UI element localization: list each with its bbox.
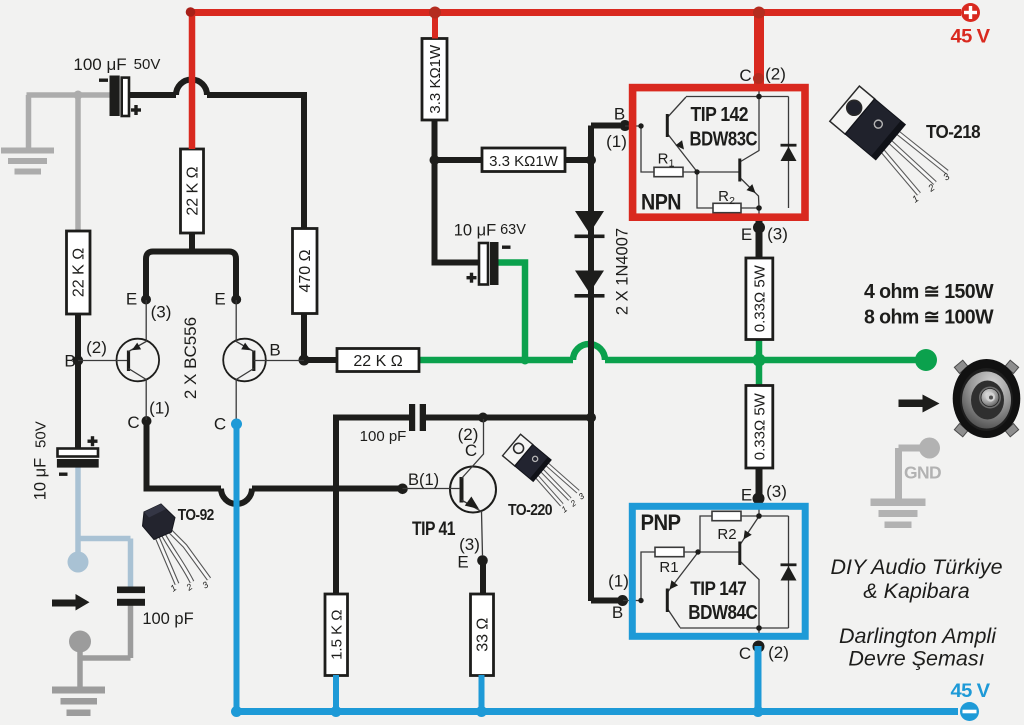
- svg-text:2 X BC556: 2 X BC556: [181, 317, 200, 399]
- svg-text:3.3 KΩ1W: 3.3 KΩ1W: [489, 153, 559, 170]
- svg-text:63V: 63V: [500, 222, 526, 238]
- svg-text:22 K Ω: 22 K Ω: [353, 353, 402, 370]
- svg-text:E: E: [741, 486, 752, 505]
- svg-text:(1): (1): [149, 399, 170, 418]
- svg-text:22 K Ω: 22 K Ω: [185, 166, 202, 215]
- svg-text:(3): (3): [767, 225, 788, 244]
- svg-text:TIP 41: TIP 41: [412, 519, 456, 540]
- svg-text:(3): (3): [459, 535, 480, 554]
- svg-text:B: B: [64, 352, 75, 371]
- svg-text:(2): (2): [765, 65, 786, 84]
- svg-text:470 Ω: 470 Ω: [297, 249, 314, 292]
- svg-text:E: E: [741, 225, 752, 244]
- svg-text:2 X 1N4007: 2 X 1N4007: [614, 228, 632, 315]
- svg-text:TIP 147: TIP 147: [690, 578, 746, 600]
- svg-text:(3): (3): [766, 482, 787, 501]
- svg-text:C: C: [739, 644, 751, 663]
- svg-text:C: C: [739, 66, 751, 85]
- svg-text:& Kapibara: & Kapibara: [863, 579, 969, 603]
- svg-text:33 Ω: 33 Ω: [475, 618, 492, 652]
- svg-text:4 ohm ≅ 150W: 4 ohm ≅ 150W: [864, 281, 994, 303]
- svg-text:100 pF: 100 pF: [142, 610, 193, 628]
- svg-text:BDW83C: BDW83C: [690, 128, 758, 151]
- svg-text:R2: R2: [717, 526, 736, 543]
- svg-text:R1: R1: [659, 559, 678, 576]
- svg-text:C: C: [127, 413, 139, 432]
- svg-text:TO-218: TO-218: [926, 122, 981, 142]
- svg-text:Darlington Ampli: Darlington Ampli: [839, 624, 997, 648]
- svg-text:TO-92: TO-92: [178, 507, 214, 524]
- svg-text:100 pF: 100 pF: [360, 428, 407, 445]
- svg-text:1.5 K Ω: 1.5 K Ω: [329, 609, 346, 659]
- svg-text:2: 2: [729, 195, 735, 207]
- svg-text:Devre Şeması: Devre Şeması: [848, 647, 984, 671]
- svg-text:E: E: [126, 290, 137, 309]
- svg-text:45 V: 45 V: [951, 680, 991, 702]
- svg-text:B: B: [269, 341, 280, 360]
- svg-text:E: E: [457, 553, 468, 572]
- svg-text:50V: 50V: [134, 56, 161, 73]
- svg-text:TO-220: TO-220: [508, 502, 552, 519]
- svg-text:0.33Ω 5W: 0.33Ω 5W: [752, 264, 769, 332]
- svg-text:50V: 50V: [32, 421, 49, 448]
- svg-text:8 ohm ≅ 100W: 8 ohm ≅ 100W: [864, 307, 994, 329]
- svg-text:(2): (2): [86, 338, 107, 357]
- svg-text:1: 1: [669, 157, 675, 169]
- svg-text:100 μF: 100 μF: [73, 55, 126, 74]
- svg-text:DIY Audio Türkiye: DIY Audio Türkiye: [830, 555, 1002, 579]
- svg-text:B: B: [612, 603, 623, 622]
- svg-text:C: C: [214, 415, 226, 434]
- svg-text:GND: GND: [904, 463, 941, 483]
- svg-text:BDW84C: BDW84C: [688, 601, 758, 624]
- svg-text:E: E: [214, 290, 225, 309]
- svg-text:C: C: [465, 441, 477, 460]
- svg-text:10 μF: 10 μF: [454, 222, 497, 240]
- svg-text:PNP: PNP: [641, 510, 681, 535]
- svg-text:R: R: [718, 188, 729, 205]
- svg-text:B(1): B(1): [408, 471, 439, 489]
- svg-text:(2): (2): [768, 643, 789, 662]
- svg-text:(3): (3): [151, 303, 172, 322]
- svg-text:NPN: NPN: [641, 190, 681, 215]
- svg-text:(1): (1): [606, 132, 627, 151]
- svg-text:3.3 KΩ1W: 3.3 KΩ1W: [427, 44, 444, 114]
- svg-text:0.33Ω 5W: 0.33Ω 5W: [752, 392, 769, 460]
- svg-text:(1): (1): [608, 572, 629, 591]
- svg-text:B: B: [614, 105, 625, 124]
- svg-text:TIP 142: TIP 142: [691, 104, 749, 126]
- svg-text:10 μF: 10 μF: [31, 458, 49, 501]
- svg-text:22 K Ω: 22 K Ω: [71, 248, 88, 297]
- svg-text:R: R: [658, 150, 669, 167]
- svg-text:45 V: 45 V: [951, 26, 991, 48]
